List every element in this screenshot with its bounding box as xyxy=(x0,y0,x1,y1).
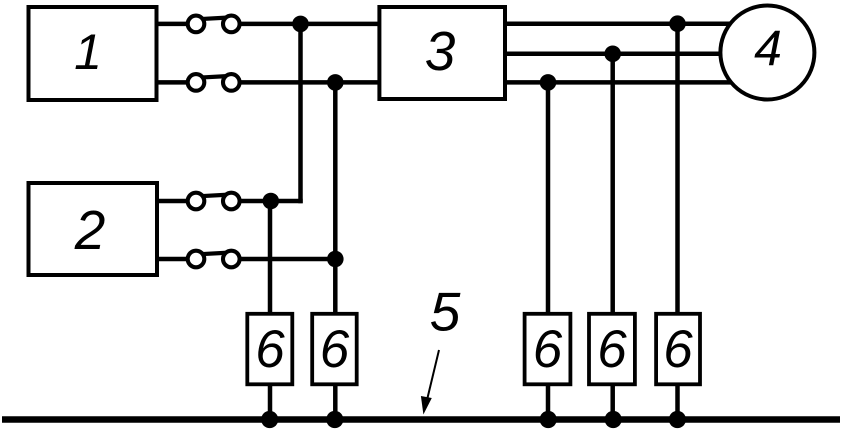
wire riser from node on row1 down to block2 upper wire xyxy=(298,24,303,203)
wire block2 upper to left contact xyxy=(157,199,196,204)
junction node bus-arrester R3 xyxy=(669,411,686,428)
arrester 6 R3 xyxy=(656,314,700,385)
contact pair K4 on block2 lower wire xyxy=(188,251,240,268)
arrester 6 R2 xyxy=(589,314,635,385)
wire arrester L1 to earth bus xyxy=(268,384,273,420)
svg-text:4: 4 xyxy=(754,21,782,77)
svg-text:6: 6 xyxy=(255,320,285,379)
arrester 6 R1 xyxy=(525,314,571,385)
wire block3 bottom output to motor 4 xyxy=(505,80,740,85)
wire arrester R1 to earth bus xyxy=(546,384,551,420)
motor 4 xyxy=(720,6,814,100)
svg-text:6: 6 xyxy=(597,320,627,379)
contact pair K2 on row2 xyxy=(188,74,240,91)
block 3 (switchgear) xyxy=(379,7,505,99)
junction node bus-arrester R2 xyxy=(605,411,622,428)
wire block3 top output to motor 4 xyxy=(505,21,740,26)
svg-text:2: 2 xyxy=(74,199,106,261)
junction node on block2 upper wire xyxy=(263,193,280,210)
wire row2 right contact to block3 xyxy=(231,80,380,85)
arrester 6 L1 xyxy=(247,314,292,385)
block 1 (source) xyxy=(29,7,157,100)
svg-text:1: 1 xyxy=(74,24,102,80)
wire drop from block2 upper node to arrester xyxy=(268,201,273,314)
wire arrester L2 to earth bus xyxy=(333,384,338,420)
junction node on block3 top output xyxy=(669,15,686,32)
junction node bus-arrester L2 xyxy=(326,411,343,428)
wire drop from block3 middle output node to arrester xyxy=(610,54,615,314)
junction node on row2 xyxy=(327,74,344,91)
arrester 6 L2 xyxy=(312,314,357,385)
svg-text:3: 3 xyxy=(425,20,456,82)
wire block3 middle output to motor 4 xyxy=(505,52,740,57)
wire row1 block1 to left contact xyxy=(157,22,196,27)
wire riser from node on row2 down through block2 lower wire to arrester xyxy=(333,82,338,314)
svg-text:5: 5 xyxy=(430,281,461,343)
earth bus 5 xyxy=(2,416,840,422)
junction node on block2 lower wire xyxy=(327,251,344,268)
wire arrester R2 to earth bus xyxy=(610,384,615,420)
junction node on block3 bottom output xyxy=(540,74,557,91)
wire drop from block3 bottom output node to arrester xyxy=(546,82,551,314)
svg-text:6: 6 xyxy=(320,320,350,379)
junction node bus-arrester L1 xyxy=(261,411,278,428)
wire row2 block1 to left contact xyxy=(157,80,196,85)
junction node on row1 xyxy=(292,16,309,33)
wire drop from block3 top output node to arrester xyxy=(675,24,680,314)
wire arrester R3 to earth bus xyxy=(675,384,680,420)
svg-text:6: 6 xyxy=(533,320,563,379)
junction node bus-arrester R1 xyxy=(540,411,557,428)
leader arrow to bus 5 xyxy=(421,350,439,415)
contact pair K3 on block2 upper wire xyxy=(188,193,240,210)
wire block2 lower right contact to riser xyxy=(231,257,335,262)
wire block2 lower to left contact xyxy=(157,257,196,262)
block 2 (source) xyxy=(29,183,158,275)
wire block2 upper right contact to riser xyxy=(231,199,302,204)
wire row1 right contact to block3 xyxy=(231,22,380,27)
junction node on block3 middle output xyxy=(604,46,621,63)
contact pair K1 on row1 xyxy=(188,16,240,33)
svg-text:6: 6 xyxy=(663,320,693,379)
